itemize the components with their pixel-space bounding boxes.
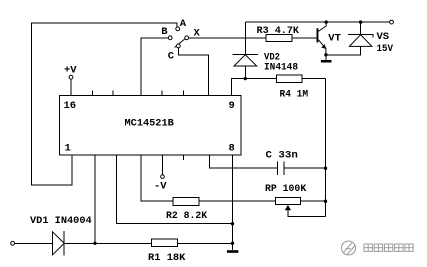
capacitor C plates [277,161,279,175]
diode VD1 triangle [53,232,65,255]
node X contact circle [185,36,189,40]
svg-text:B: B [161,26,168,38]
svg-text:16: 16 [64,100,77,112]
svg-text:RP 100K: RP 100K [265,183,307,195]
potentiometer RP body [276,198,301,205]
junction dot R1 / pin8 vertical [231,242,234,245]
transistor Q VT base bar [317,28,319,42]
diode VD1 cathode bar [63,231,65,255]
wire VD1 to R1 [64,242,151,244]
pin stub top 15 [92,91,94,96]
pin stub top 12 [161,91,163,96]
wire +V to pin 16 [70,79,72,95]
transistor VT emitter arrowhead [321,44,326,49]
wire R1 to ground node [178,242,233,244]
transistor VT emitter with arrow [318,39,326,54]
wire right vertical rail [325,79,327,217]
wire contact X to R3 [189,37,266,39]
wire pin 5 to -V terminal [162,155,164,175]
ground at emitter [325,55,327,60]
terminal -V circle [161,175,165,179]
terminal circle top right [390,20,394,24]
node B contact circle [168,36,172,40]
pin stub bottom 6 [183,155,185,160]
wire pin 9 up to R4 row [232,79,277,96]
terminal circle bottom left [11,241,15,245]
wire pin 2 down to rail [94,155,96,243]
svg-text:VS: VS [377,31,390,43]
zener VS cathode bar with hook [348,35,373,38]
wire pin 8 vertical down [232,155,234,243]
wire R3 to VT base [292,37,317,39]
zener VS wire from top [360,22,362,35]
svg-text:MC14521B: MC14521B [125,118,175,130]
watermark text [364,244,413,251]
junction dot emitter node [324,53,327,56]
svg-text:A: A [180,18,187,30]
svg-text:1: 1 [65,143,71,155]
junction dot RP / right vertical [324,200,327,203]
junction dot collector / top wire [325,20,328,23]
wire C to right vertical [284,167,325,169]
wire VD2 anode to R4 node [244,66,246,79]
svg-text:15V: 15V [377,43,394,55]
pin stub top 14 [112,91,114,96]
wire contact C to pin 10 [178,48,208,96]
resistor R1 [152,239,178,247]
wire pin 7 to capacitor C [210,155,278,168]
junction dot pin2 / rail [93,242,96,245]
resistor R4 [277,75,303,83]
svg-text:8: 8 [229,143,235,155]
node C contact circle [176,44,180,48]
wire pin 4 to R2 [141,155,173,201]
svg-text:-V: -V [154,181,167,193]
svg-text:C: C [168,50,175,62]
diode VD2 cathode bar [233,54,258,56]
svg-text:VT: VT [328,33,341,45]
watermark logo [342,241,356,255]
switch wiper X to C [175,39,186,48]
svg-text:C 33n: C 33n [266,150,298,162]
ground bottom [232,243,234,250]
wire R2 to RP [199,200,276,202]
pin stub top 11 [183,91,185,96]
RP wiper arrow [285,205,291,210]
svg-text:R2 8.2K: R2 8.2K [166,210,208,222]
diode VD2 triangle [234,55,257,66]
wire terminal to VD1 [15,242,53,244]
node A contact circle [176,27,180,31]
wire top corner down through VD2 [245,22,247,55]
svg-text:VD1 IN4004: VD1 IN4004 [30,215,92,227]
top supply wire [246,21,390,23]
junction dot VD2 / R4 wire [244,77,247,80]
junction dot pin3 / pin8 [231,222,234,225]
transistor VT collector [318,22,326,32]
resistor R3 [266,35,292,42]
svg-text:R3 4.7K: R3 4.7K [257,25,300,37]
svg-text:9: 9 [229,100,235,112]
svg-text:R1 18K: R1 18K [148,252,186,264]
svg-text:+V: +V [64,65,77,77]
junction dot VS / top wire [359,20,362,23]
resistor R2 [173,197,199,205]
wire pin 3 to pin8 vertical [117,155,233,224]
svg-text:R4 1M: R4 1M [280,88,309,100]
IC U1 MC14521B body [59,96,241,156]
wire R4 to right vertical [302,78,326,80]
junction dot C / right vertical [324,167,327,170]
wire contact B to pin 13 [141,38,168,96]
wire RP wiper to vertical [288,210,326,217]
zener VS triangle [349,35,372,47]
wire RP right to vertical [301,200,326,202]
svg-text:IN4148: IN4148 [264,61,298,73]
wire VS anode to emitter node [326,46,361,54]
wire pin1 loop to switch contact A [32,23,177,185]
